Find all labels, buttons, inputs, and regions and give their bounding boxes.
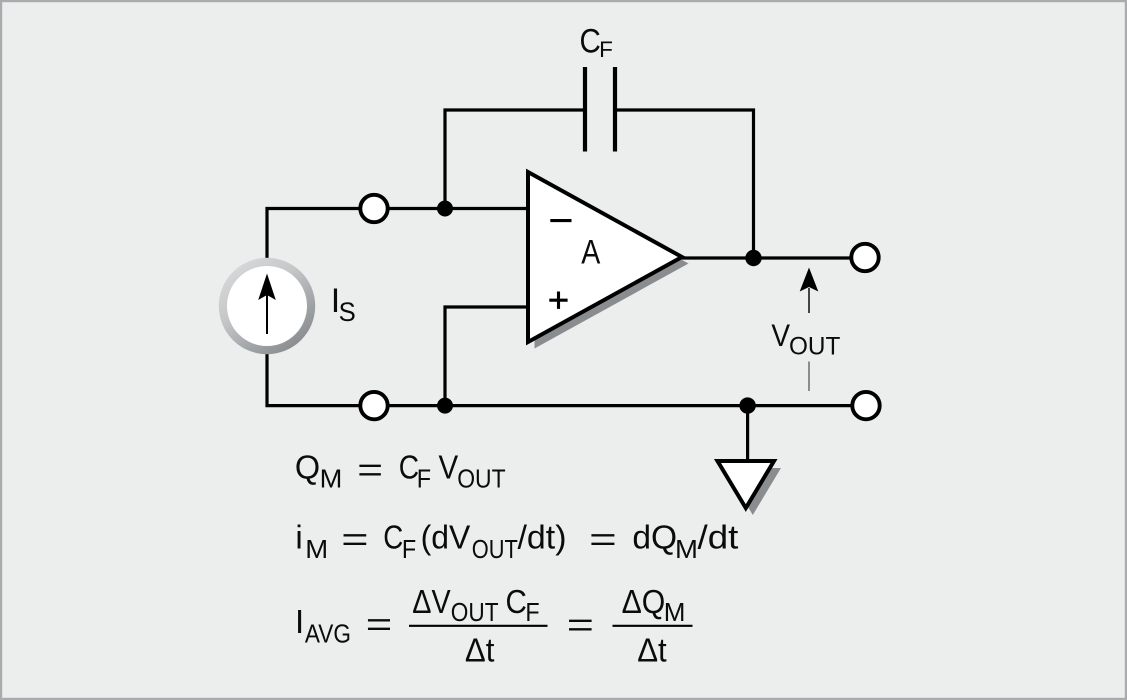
svg-text:C: C: [506, 583, 527, 620]
svg-text:M: M: [320, 466, 343, 494]
node: inverting input junction: [437, 201, 453, 217]
wire: feedback left vertical up to capacitor left plate: [445, 110, 583, 209]
svg-text:i: i: [295, 519, 302, 556]
fraction bar 2: [613, 625, 693, 627]
op-amp A: [528, 172, 682, 342]
svg-text:OUT: OUT: [789, 332, 840, 360]
wire: current source top lead and top rail to inverting input: [267, 209, 528, 259]
terminal: input bottom open circle: [360, 392, 387, 419]
svg-text:F: F: [525, 599, 539, 627]
svg-text:Q: Q: [295, 449, 320, 486]
svg-text:=: =: [357, 451, 383, 488]
svg-text:dQ: dQ: [632, 519, 677, 556]
svg-text:V: V: [439, 449, 459, 486]
node: output junction: [745, 250, 761, 266]
ground: [718, 461, 775, 508]
wire: non-inverting input from bottom rail: [445, 307, 528, 406]
fraction bar 1: [409, 625, 548, 627]
equation 2: iM = CF (dVOUT/dt) = dQM/dt: [295, 519, 738, 564]
current source I_S: [219, 258, 315, 354]
svg-text:C: C: [383, 519, 403, 556]
capacitor C_F: [585, 67, 615, 152]
wire: bottom rail from current source to right terminal: [267, 354, 852, 406]
ground shadow: [725, 468, 782, 515]
svg-text:=: =: [341, 521, 368, 558]
node: non-inverting input bottom junction: [437, 398, 453, 414]
wire: ground stub: [746, 406, 749, 461]
label C_F: [580, 22, 613, 62]
svg-text:ΔQ: ΔQ: [622, 583, 666, 620]
arrow V_OUT: [800, 268, 819, 314]
label minus input: [550, 219, 571, 222]
svg-text:A: A: [581, 234, 600, 272]
svg-text:AVG: AVG: [305, 621, 351, 649]
svg-text:OUT: OUT: [451, 599, 499, 627]
svg-text:Δt: Δt: [637, 632, 666, 669]
svg-text:Δt: Δt: [465, 632, 494, 669]
equation 3: IAVG = dVOUT CF over dt = dQM over dt: [295, 583, 693, 669]
terminal: output top open circle: [851, 244, 878, 271]
svg-text:OUT: OUT: [457, 466, 505, 494]
label V_OUT: [771, 317, 840, 360]
terminal: output bottom open circle: [852, 392, 879, 419]
svg-text:V: V: [771, 317, 790, 353]
node: ground junction: [739, 397, 755, 413]
svg-text:OUT: OUT: [472, 536, 518, 564]
label I_S: [331, 282, 356, 327]
wire: capacitor right plate to feedback right vertical down to output node: [617, 110, 754, 258]
svg-text:=: =: [366, 606, 393, 643]
svg-text:/dt): /dt): [518, 519, 567, 556]
svg-text:M: M: [305, 536, 328, 564]
tick: V_OUT lower gray line: [808, 362, 810, 392]
svg-text:=: =: [567, 606, 594, 643]
svg-text:(dV: (dV: [421, 519, 471, 556]
svg-text:F: F: [417, 466, 431, 494]
svg-text:/dt: /dt: [698, 519, 739, 556]
svg-text:ΔV: ΔV: [412, 583, 450, 620]
svg-text:F: F: [599, 37, 613, 62]
svg-text:=: =: [589, 521, 617, 558]
svg-text:M: M: [675, 536, 698, 564]
svg-text:I: I: [295, 603, 304, 640]
svg-text:F: F: [402, 536, 416, 564]
svg-text:C: C: [580, 22, 601, 60]
label plus input: [549, 292, 567, 309]
svg-text:S: S: [339, 297, 356, 327]
equation 1: QM = CF VOUT: [295, 449, 506, 494]
op-amp A shadow: [535, 179, 689, 349]
terminal: input top open circle: [360, 195, 387, 222]
wire: op-amp output to right terminal: [682, 256, 852, 259]
svg-text:M: M: [664, 599, 686, 627]
